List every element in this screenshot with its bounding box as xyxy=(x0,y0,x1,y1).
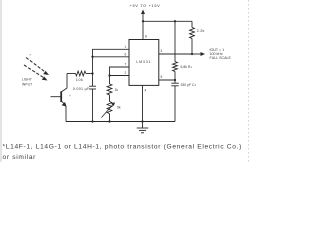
node light input label xyxy=(22,78,32,87)
svg-text:1: 1 xyxy=(125,45,127,49)
pin 4 lead xyxy=(142,85,144,121)
resistor 10k xyxy=(67,71,93,76)
node junction dot 10k xyxy=(91,72,93,74)
svg-text:1k: 1k xyxy=(115,88,119,92)
wire pin7 xyxy=(110,67,130,76)
wire V+ rail xyxy=(143,20,192,22)
emitter wire xyxy=(65,106,67,122)
wire pin3 to output xyxy=(159,53,192,55)
node junction dot pin6 xyxy=(91,56,93,58)
capacitor 330pF Ct xyxy=(171,80,178,122)
caption text xyxy=(3,143,242,161)
wire left card border xyxy=(0,0,2,162)
base bar xyxy=(60,91,62,102)
node output label fOUT xyxy=(210,48,232,60)
wire V+ supply arrow xyxy=(141,10,145,40)
svg-text:330 pF C1: 330 pF C1 xyxy=(181,83,197,87)
svg-text:FULL SCALE: FULL SCALE xyxy=(210,56,232,60)
wire pin1 xyxy=(93,49,130,57)
svg-text:6: 6 xyxy=(125,52,127,56)
transistor Q1 phototransistor xyxy=(51,74,68,122)
ground symbol xyxy=(137,122,149,133)
wire right card border xyxy=(248,0,250,162)
node junction dot pin4 ground xyxy=(141,120,143,122)
collector wire xyxy=(61,74,67,93)
svg-text:5: 5 xyxy=(161,75,163,79)
light input arrow upper xyxy=(26,58,49,76)
svg-text:+5V TO +15V: +5V TO +15V xyxy=(130,3,161,8)
svg-text:2.2k: 2.2k xyxy=(197,29,205,33)
node junction dot pin5 xyxy=(174,79,176,81)
potentiometer 5k wiper arrow xyxy=(102,102,116,117)
svg-text:0.001 µF: 0.001 µF xyxy=(73,87,90,91)
wire pin5 xyxy=(159,79,175,81)
wire ground rail xyxy=(66,121,175,123)
node junction dot Rt top xyxy=(174,20,176,22)
svg-text:LIGHT: LIGHT xyxy=(22,78,32,82)
svg-text:*: * xyxy=(30,54,32,58)
svg-text:*L14F-1, L14G-1 or L14H-1, pho: *L14F-1, L14G-1 or L14H-1, photo transis… xyxy=(3,143,242,150)
node junction dot pin2 xyxy=(108,74,110,76)
svg-text:or similar: or similar xyxy=(3,154,37,161)
svg-text:LM331: LM331 xyxy=(136,60,151,64)
node junction dot pot bottom xyxy=(108,120,110,122)
wire pin2 xyxy=(110,75,130,77)
svg-text:7: 7 xyxy=(125,63,127,67)
node junction dot cap bottom xyxy=(91,120,93,122)
svg-text:INPUT: INPUT xyxy=(22,83,32,87)
wire pin6 xyxy=(93,56,130,58)
svg-text:5k: 5k xyxy=(117,106,121,110)
svg-text:2: 2 xyxy=(125,71,127,75)
svg-text:4: 4 xyxy=(145,89,147,93)
op-amp U1 LM331 box xyxy=(129,40,159,86)
resistor 2.2k pull-up xyxy=(190,21,195,54)
node junction dot output xyxy=(191,53,193,55)
capacitor 0.001uF xyxy=(89,86,96,121)
svg-text:6.8k R1: 6.8k R1 xyxy=(181,65,193,69)
resistor 6.8k Rt xyxy=(173,21,178,80)
svg-text:*: * xyxy=(69,95,71,99)
wire output arrow xyxy=(192,52,205,56)
emitter with arrow xyxy=(61,101,65,105)
light input arrow lower xyxy=(24,65,48,81)
svg-text:10k: 10k xyxy=(76,77,83,82)
svg-text:3: 3 xyxy=(161,49,163,53)
node junction dot supply/pin8 xyxy=(142,20,144,22)
wire threshold node vertical xyxy=(92,57,94,86)
base lead xyxy=(51,96,62,98)
svg-text:8: 8 xyxy=(145,35,147,39)
resistor 1k xyxy=(107,76,112,102)
potentiometer 5k xyxy=(107,102,112,122)
